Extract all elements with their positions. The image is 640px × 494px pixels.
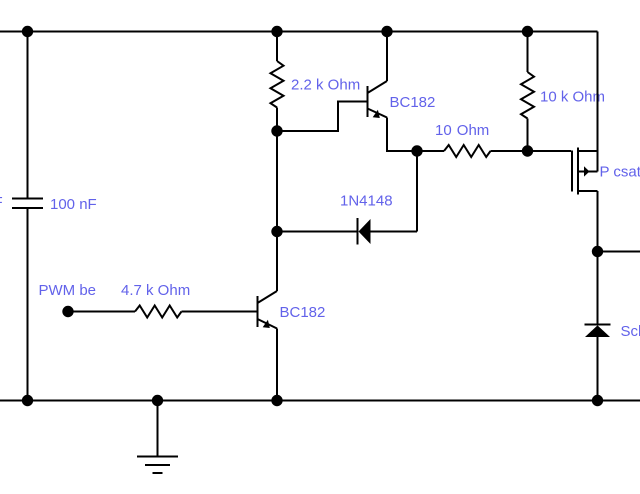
node rail junction above 2.2k <box>271 26 282 37</box>
wire diode anode to emitter node <box>371 151 418 232</box>
svg-text:BC182: BC182 <box>280 304 326 321</box>
capacitor 100 nF <box>12 199 43 209</box>
label BC182 (top) <box>390 94 436 111</box>
label partial off-screen capacitor text F <box>0 194 3 211</box>
wire Q1 collector to rail <box>386 32 388 82</box>
wire Q2 emitter to bottom rail <box>276 329 278 401</box>
node mid junction <box>271 226 282 237</box>
wire 2.2k to node <box>276 108 278 132</box>
wire left vertical (rail to capacitor) <box>27 32 29 198</box>
svg-text:F: F <box>0 194 3 211</box>
node 2.2k bottom junction <box>271 125 282 136</box>
wire MOSFET source to top rail <box>597 32 599 172</box>
label BC182 (bottom) <box>280 304 326 321</box>
node ground junction <box>152 395 163 406</box>
wire node to base of Q1 <box>277 102 367 132</box>
resistor R3 10 Ohm <box>444 145 491 157</box>
node emitter / 10 Ohm / diode junction <box>411 145 422 156</box>
transistor Q2 BC182 (bottom) <box>258 291 278 329</box>
label PWM be <box>39 282 97 299</box>
wire mid node down to Q2 collector <box>276 232 278 292</box>
label capacitor value 100 nF <box>50 196 97 213</box>
wire gate node to MOSFET gate <box>528 150 572 152</box>
node rail junction above Q1 <box>381 26 392 37</box>
wire node to diode D1 cathode <box>277 231 357 233</box>
svg-text:BC182: BC182 <box>390 94 436 111</box>
ground symbol <box>137 401 178 473</box>
wire output to right edge <box>598 251 640 253</box>
svg-text:10Ohm: 10Ohm <box>435 122 489 139</box>
resistor R2 10 k Ohm <box>521 72 534 119</box>
wire bottom ground rail <box>0 400 640 402</box>
svg-text:Schottky: Schottky <box>621 323 640 340</box>
wire 10k to gate node <box>527 119 529 152</box>
label P csat <box>600 164 640 181</box>
wire 4.7k to Q2 base <box>182 311 257 313</box>
wire Schottky anode to bottom rail <box>597 337 599 401</box>
terminal PWM input <box>62 306 73 317</box>
node rail junction above 10k <box>522 26 533 37</box>
wire Q1 emitter down to node <box>387 118 417 152</box>
node bottom-left junction <box>22 395 33 406</box>
wire 2.2k node down to mid node <box>276 131 278 232</box>
wire rail to resistor R 2.2k <box>276 32 278 62</box>
label 2.2 k Ohm <box>291 77 360 94</box>
wire rail to resistor 10k <box>527 32 529 73</box>
svg-text:100 nF: 100 nF <box>50 196 97 213</box>
resistor R1 2.2 k Ohm <box>271 61 284 108</box>
wire input to 4.7k <box>68 311 135 313</box>
diode D2 Schottky <box>585 324 611 337</box>
label 10 k Ohm <box>540 89 605 106</box>
svg-text:2.2 k Ohm: 2.2 k Ohm <box>291 77 360 94</box>
node output junction <box>592 246 603 257</box>
diode D1 1N4148 <box>358 218 371 245</box>
svg-text:PWM be: PWM be <box>39 282 97 299</box>
wire output node to Schottky cathode <box>597 252 599 325</box>
MOSFET M1 P-channel <box>572 148 598 195</box>
svg-text:10 k Ohm: 10 k Ohm <box>540 89 605 106</box>
svg-text:P csat: P csat <box>600 164 640 181</box>
node gate junction <box>522 145 533 156</box>
wire capacitor to bottom rail <box>27 209 29 400</box>
node top-left junction <box>22 26 33 37</box>
svg-text:1N4148: 1N4148 <box>340 193 393 210</box>
label 1N4148 <box>340 193 393 210</box>
node emitter rail junction <box>271 395 282 406</box>
wire 10 Ohm to gate node <box>491 150 528 152</box>
resistor R4 4.7 k Ohm <box>135 306 182 318</box>
wire top supply rail <box>0 31 598 33</box>
wire node to resistor 10 Ohm <box>417 150 444 152</box>
label 4.7 k Ohm <box>121 282 190 299</box>
label Schottky <box>621 323 640 340</box>
label 10 Ohm <box>435 122 489 139</box>
wire MOSFET drain down to output node <box>597 191 599 252</box>
svg-text:4.7 k Ohm: 4.7 k Ohm <box>121 282 190 299</box>
transistor Q1 BC182 (top) <box>368 81 388 118</box>
node Schottky rail junction <box>592 395 603 406</box>
